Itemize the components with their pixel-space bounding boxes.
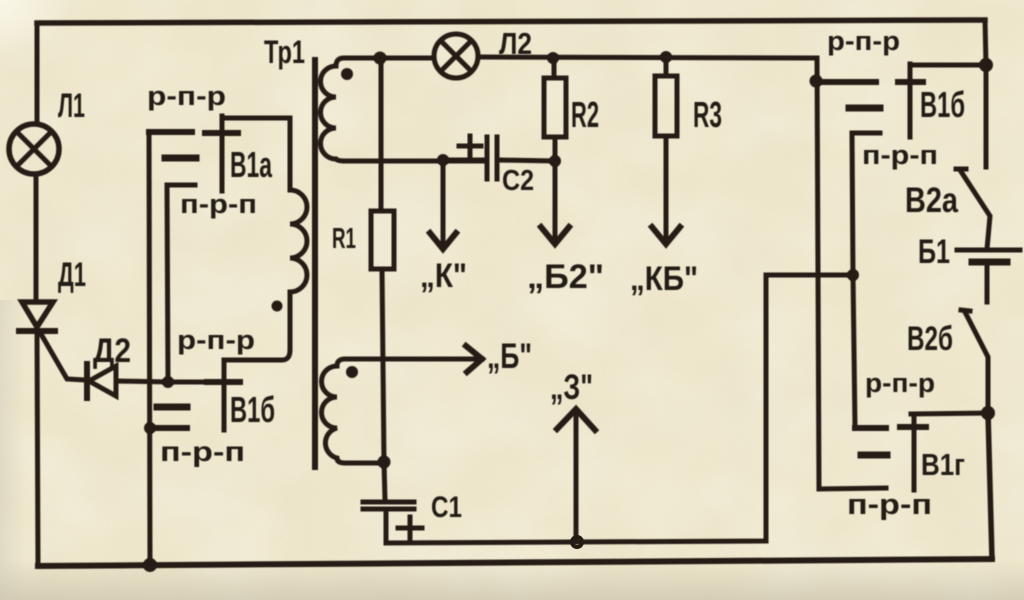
svg-text:п-р-п: п-р-п [862,140,938,170]
svg-text:В1б: В1б [920,84,965,125]
svg-text:Д2: Д2 [93,332,131,370]
svg-text:Б1: Б1 [918,233,950,271]
svg-text:В1г: В1г [921,447,965,482]
svg-text:п-р-п: п-р-п [847,489,932,521]
svg-text:Л1: Л1 [58,87,85,125]
svg-text:В1б: В1б [230,389,275,430]
svg-text:„К": „К" [420,257,467,295]
svg-text:„Б2": „Б2" [527,258,604,296]
svg-text:С1: С1 [431,491,462,524]
svg-text:р-п-р: р-п-р [147,81,226,111]
svg-text:Л2: Л2 [499,26,532,61]
svg-text:R1: R1 [332,223,356,255]
svg-text:„КБ": „КБ" [630,260,698,298]
svg-text:п-р-п: п-р-п [160,436,245,467]
svg-text:„Б": „Б" [487,337,532,376]
svg-text:Д1: Д1 [58,256,86,294]
svg-text:В2б: В2б [907,320,953,358]
svg-text:р-п-р: р-п-р [865,368,935,398]
svg-text:р-п-р: р-п-р [827,26,900,56]
svg-text:р-п-р: р-п-р [177,325,255,355]
svg-text:„З": „З" [550,368,593,407]
svg-text:В1а: В1а [230,144,273,185]
svg-text:п-р-п: п-р-п [180,189,257,219]
svg-text:R2: R2 [571,94,599,135]
svg-text:Тр1: Тр1 [264,34,305,70]
svg-text:С2: С2 [502,165,534,197]
svg-text:В2а: В2а [905,181,958,220]
svg-text:R3: R3 [693,94,722,135]
